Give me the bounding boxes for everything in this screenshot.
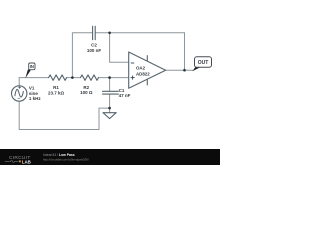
svg-text:AD822: AD822	[136, 71, 150, 76]
svg-text:hdean34 / Low Pass: hdean34 / Low Pass	[43, 153, 75, 157]
svg-text:http://circuitlab.com/c/9mmjpz: http://circuitlab.com/c/9mmjpzlz556/	[43, 157, 89, 161]
svg-text:C2: C2	[91, 43, 97, 48]
svg-text:47 nF: 47 nF	[119, 93, 131, 98]
svg-text:V1: V1	[29, 85, 35, 90]
svg-text:100 nF: 100 nF	[87, 48, 102, 53]
svg-text:OUT: OUT	[198, 60, 209, 66]
svg-text:IN: IN	[30, 64, 34, 69]
svg-text:23.7 kΩ: 23.7 kΩ	[48, 90, 65, 95]
svg-text:OA2: OA2	[136, 65, 146, 70]
svg-text:LAB: LAB	[22, 159, 31, 164]
svg-text:100 Ω: 100 Ω	[80, 90, 93, 95]
svg-text:R2: R2	[83, 85, 89, 90]
svg-text:1 kHz: 1 kHz	[29, 96, 42, 101]
